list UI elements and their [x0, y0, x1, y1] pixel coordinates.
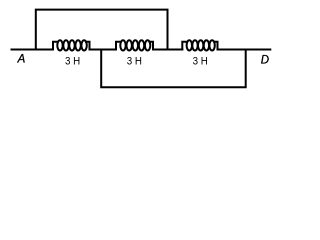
wire right segment to D [217, 49, 272, 51]
svg-text:3 H: 3 H [127, 56, 142, 68]
wire main left segment from A [11, 49, 54, 51]
svg-text:3 H: 3 H [65, 56, 80, 68]
inductor L3 [182, 40, 217, 50]
svg-text:D: D [261, 54, 269, 66]
wire bottom bypass loop [101, 50, 246, 88]
svg-text:A: A [17, 53, 26, 65]
inductor L1 [53, 40, 90, 50]
svg-text:3 H: 3 H [193, 56, 208, 68]
inductor L2 [116, 40, 153, 50]
wire between L1 and L2 [89, 49, 117, 51]
wire top bypass loop [36, 10, 168, 50]
wire between L2 and L3 [152, 49, 183, 51]
